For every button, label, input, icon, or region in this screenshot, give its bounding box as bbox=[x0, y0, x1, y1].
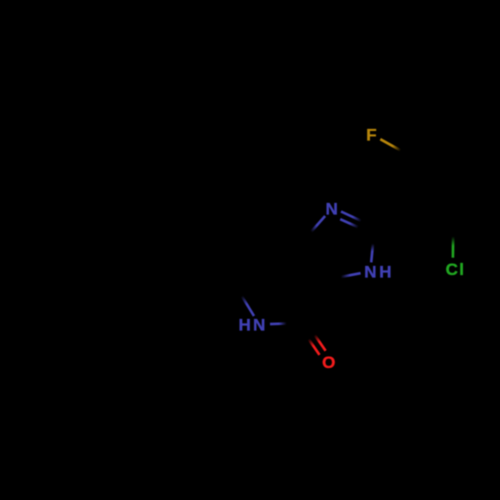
svg-text:l: l bbox=[459, 260, 464, 279]
svg-text:N: N bbox=[364, 262, 376, 281]
svg-text:N: N bbox=[326, 200, 338, 219]
svg-text:F: F bbox=[366, 125, 376, 144]
svg-text:O: O bbox=[322, 353, 335, 372]
svg-text:H: H bbox=[239, 316, 251, 335]
svg-text:N: N bbox=[253, 316, 265, 335]
svg-text:H: H bbox=[379, 262, 391, 281]
svg-text:C: C bbox=[446, 260, 458, 279]
